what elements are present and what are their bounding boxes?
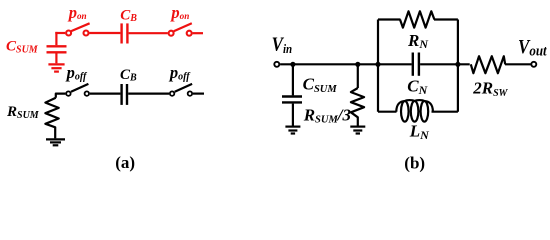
- capacitor C_B (black): [122, 84, 127, 105]
- junction node at R_SUM/3 tap: [355, 62, 360, 67]
- switch p_off #1: [66, 84, 89, 96]
- wire (red, switch #1 to C_B): [89, 32, 120, 34]
- terminal V_in: [274, 62, 279, 67]
- wire (2R_SW to V_out terminal): [505, 63, 531, 65]
- capacitor C_SUM (red): [47, 32, 67, 63]
- resistor R_SUM: [45, 98, 58, 139]
- wire (main, V_in to C_N left plate): [280, 63, 412, 65]
- wire (red, C_SUM to switch p_on #1): [55, 32, 65, 34]
- inductor L_N (bottom branch): [378, 100, 458, 122]
- junction node at C_SUM tap: [290, 62, 295, 67]
- junction node at tank right rail: [455, 62, 460, 67]
- wire (main, C_N right plate to 2R_SW): [420, 63, 470, 65]
- wire (black, R_SUM top to switch p_off #1): [56, 94, 66, 98]
- svg-text:(b): (b): [404, 153, 425, 172]
- resistor R_N (top branch): [378, 11, 458, 27]
- switch p_on #2: [169, 23, 192, 35]
- wire (red stub right of switch p_on #2): [193, 32, 203, 34]
- ground (below C_SUM shunt): [285, 127, 300, 134]
- ground (below R_SUM): [46, 139, 65, 145]
- capacitor C_N (middle branch): [413, 53, 419, 76]
- junction node at tank left rail: [375, 62, 380, 67]
- wire (tank left rail): [377, 20, 379, 112]
- terminal V_out: [531, 62, 536, 67]
- capacitor C_B (red): [122, 23, 128, 43]
- switch p_on #1: [66, 23, 90, 35]
- wire (tank right rail): [457, 20, 459, 112]
- ground (below R_SUM/3): [350, 127, 365, 134]
- resistor 2R_SW: [471, 56, 505, 73]
- resistor R_SUM/3 (shunt): [351, 64, 364, 125]
- switch p_off #2: [170, 84, 192, 96]
- wire (black, switch #1 to C_B): [90, 92, 121, 94]
- wire (black stub right of switch p_off #2): [193, 92, 204, 94]
- wire (red, C_B to switch p_on #2): [129, 32, 168, 34]
- svg-text:(a): (a): [115, 153, 135, 172]
- wire (black, C_B to switch p_off #2): [128, 92, 169, 94]
- capacitor C_SUM (shunt): [282, 64, 302, 125]
- ground (red, below C_SUM): [48, 64, 64, 71]
